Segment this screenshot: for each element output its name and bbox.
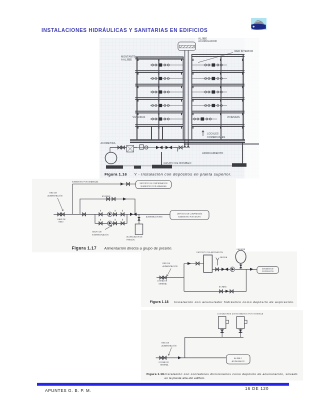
scanned background	[32, 179, 236, 253]
upper horizontal pipe	[185, 336, 244, 338]
svg-text:CONTADORES DIVISIONARIOS POR V: CONTADORES DIVISIONARIOS POR VIVIENDA	[217, 312, 264, 315]
footer bar	[37, 383, 289, 386]
lower pump set	[99, 222, 102, 225]
svg-text:DEPÓSITO DE COMPENSACIÓN: DEPÓSITO DE COMPENSACIÓN	[140, 182, 168, 185]
svg-text:RED DE: RED DE	[163, 263, 171, 265]
svg-text:ACUMULADOR: ACUMULADOR	[232, 360, 245, 363]
svg-text:INSTALACIONES HIDRÁULICAS Y SA: INSTALACIONES HIDRÁULICAS Y SANITARIAS E…	[42, 27, 209, 34]
svg-text:APUNTES G. B. P. M.: APUNTES G. B. P. M.	[45, 388, 91, 393]
svg-text:Figura 1.19: Figura 1.19	[147, 372, 165, 376]
floor 1 branch pipe	[150, 64, 227, 66]
floor 2 valves right wing	[205, 77, 223, 80]
foundation line	[108, 165, 246, 167]
filter box	[127, 145, 134, 152]
pump line after tank	[212, 268, 257, 270]
floor 4 branch pipe	[150, 105, 227, 107]
floor 5 valves right wing	[194, 117, 212, 120]
svg-text:GRUPO DE: GRUPO DE	[92, 231, 102, 233]
flow arrow	[178, 356, 181, 359]
building slabs right wing roof	[135, 55, 244, 127]
montante box	[257, 267, 279, 274]
basement pump line	[137, 147, 190, 149]
grupo label	[105, 226, 112, 230]
column stubs	[138, 59, 243, 129]
svg-text:Alimentación directa a grupo d: Alimentación directa a grupo de presión.	[103, 246, 172, 250]
svg-text:Figura 1.16: Figura 1.16	[105, 171, 128, 176]
drop riser	[184, 337, 186, 358]
right wing column	[220, 56, 222, 140]
svg-text:ALIMENTACIÓN: ALIMENTACIÓN	[162, 345, 177, 348]
label box deposito compensacion	[136, 181, 172, 189]
svg-text:SUMINISTRO POR GRAVEDAD: SUMINISTRO POR GRAVEDAD	[140, 185, 167, 188]
floor 3 valves right wing	[205, 90, 223, 93]
svg-text:Y - Instalación con depósitos: Y - Instalación con depósitos en planta …	[134, 171, 232, 176]
upper pump set	[99, 213, 102, 216]
svg-text:PASO: PASO	[59, 221, 64, 224]
by-pass	[184, 269, 246, 291]
riser check valves	[184, 144, 190, 147]
floor 3 valves left wing	[152, 90, 170, 93]
acometida valves	[118, 146, 121, 149]
leader montante	[138, 59, 184, 61]
deposit 2	[237, 317, 245, 329]
basement walls	[162, 143, 243, 166]
footings	[106, 165, 123, 168]
floor 5 branch pipe	[150, 118, 217, 120]
pumps	[156, 146, 163, 149]
svg-text:BY-PASS: BY-PASS	[219, 286, 227, 289]
calderin	[138, 214, 140, 224]
svg-text:VIVIENDAS: VIVIENDAS	[133, 116, 146, 119]
by-pass loop	[80, 199, 135, 214]
upper branch to tank	[184, 263, 204, 265]
svg-text:ACUMULADOR DE: ACUMULADOR DE	[127, 235, 144, 238]
deposit 1	[218, 317, 226, 329]
svg-text:en la planta alta del edificio: en la planta alta del edificio.	[165, 376, 206, 380]
tank (aljibe)	[178, 42, 196, 50]
svg-text:RED DE: RED DE	[49, 192, 57, 194]
portal columns ground floor	[152, 127, 163, 141]
gravity riser	[72, 184, 74, 214]
check valves at bypass rejoin	[130, 213, 137, 216]
water meter circle	[109, 148, 111, 153]
svg-text:ALIMENTACIÓN RED: ALIMENTACIÓN RED	[146, 216, 163, 219]
floor 5 valves left wing	[152, 117, 170, 120]
main inlet line	[157, 277, 185, 279]
floor 4 valves right wing	[205, 104, 223, 107]
svg-text:PRESIÓN: PRESIÓN	[127, 238, 136, 241]
basement inlet fittings	[140, 145, 144, 149]
svg-text:RED INTERIOR: RED INTERIOR	[235, 49, 254, 53]
svg-text:DEPÓSITO DE COMPRESIÓN: DEPÓSITO DE COMPRESIÓN	[177, 212, 203, 215]
aljibe box	[226, 355, 250, 364]
scanned background	[141, 252, 297, 308]
svg-text:APARCAMIENTO: APARCAMIENTO	[202, 151, 223, 155]
svg-text:ALIMENTACIÓN: ALIMENTACIÓN	[163, 265, 178, 268]
svg-text:ACOMETIDA: ACOMETIDA	[101, 142, 116, 145]
svg-text:CALDERÍN: CALDERÍN	[237, 248, 246, 251]
left facade wall	[136, 57, 138, 140]
svg-text:CONTADOR: CONTADOR	[157, 280, 168, 283]
floor 3 branch pipe	[150, 91, 227, 93]
floor 2 branch pipe	[150, 78, 227, 80]
logo	[251, 18, 267, 30]
floor 1 valves right wing	[205, 63, 223, 66]
svg-text:VIVIENDAS: VIVIENDAS	[227, 116, 240, 119]
floor 1 valves left wing	[152, 63, 170, 66]
inlet valves	[160, 356, 163, 359]
top gravity line	[73, 183, 136, 185]
svg-text:16 DE 120: 16 DE 120	[245, 386, 269, 391]
float valve on tank	[216, 258, 219, 266]
svg-text:GENERAL: GENERAL	[160, 364, 169, 367]
svg-text:COMERCIALES: COMERCIALES	[207, 136, 226, 139]
inlet valves	[160, 276, 163, 279]
pump group branches	[95, 214, 127, 223]
svg-text:Figura 1.17: Figura 1.17	[72, 245, 97, 250]
left wing column	[158, 59, 160, 140]
main line	[54, 213, 170, 215]
ground slab	[130, 140, 245, 142]
svg-text:ALIMENTACIÓN: ALIMENTACIÓN	[48, 195, 63, 198]
floor 4 valves left wing	[152, 104, 170, 107]
svg-text:CONTADOR: CONTADOR	[159, 361, 170, 364]
label box deposito compresion	[170, 210, 209, 219]
main valves	[58, 213, 61, 216]
shaft wall left	[182, 57, 184, 140]
basement ceiling extension	[185, 143, 259, 145]
svg-text:ACUMULADOR: ACUMULADOR	[198, 39, 217, 43]
aljibe tank	[204, 255, 213, 272]
svg-text:Instalación con acumulador hid: Instalación con acumulador hidráulico co…	[174, 300, 295, 304]
svg-text:GENERAL: GENERAL	[159, 283, 168, 286]
right facade wall	[242, 54, 244, 140]
svg-text:ALJIBE O: ALJIBE O	[234, 357, 242, 360]
svg-text:DEPÓSITO DE ASPIRACIÓN: DEPÓSITO DE ASPIRACIÓN	[197, 251, 224, 254]
membrane vessel	[236, 250, 246, 263]
svg-text:GRUPO DE BOMBEO: GRUPO DE BOMBEO	[164, 162, 192, 165]
svg-text:Figura 1.18: Figura 1.18	[150, 300, 169, 304]
junction riser	[183, 264, 185, 292]
shaft wall right	[191, 54, 193, 140]
floor 2 valves left wing	[152, 77, 170, 80]
svg-text:SOBREELEVACIÓN: SOBREELEVACIÓN	[92, 233, 109, 236]
scanned background	[100, 38, 260, 179]
svg-text:SUMINISTRO POR GRAVEDAD: SUMINISTRO POR GRAVEDAD	[72, 181, 99, 184]
risers	[185, 50, 188, 146]
leader red interior	[198, 53, 233, 63]
svg-text:RED DE: RED DE	[162, 343, 170, 345]
svg-text:A ALJIBE: A ALJIBE	[121, 58, 132, 62]
main line	[156, 357, 227, 359]
svg-text:LLAVE DE: LLAVE DE	[57, 218, 66, 221]
scanned background	[141, 310, 303, 381]
svg-text:SUMINISTRO POR GRUPO: SUMINISTRO POR GRUPO	[178, 216, 201, 218]
acometida pipe	[110, 147, 137, 149]
